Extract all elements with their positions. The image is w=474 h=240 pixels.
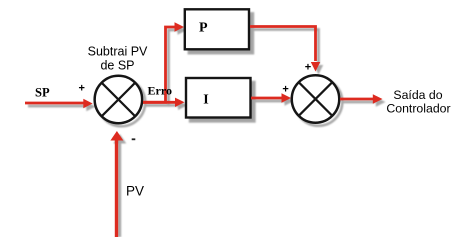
summing junction S1 bbox=[95, 76, 142, 124]
svg-text:PV: PV bbox=[126, 184, 144, 199]
svg-text:+: + bbox=[282, 83, 288, 95]
wire SP arrow bbox=[25, 99, 93, 108]
wire I out shadow bbox=[254, 96, 294, 105]
svg-text:de SP: de SP bbox=[100, 59, 134, 73]
wire P out bbox=[250, 27, 316, 62]
wire SP arrow shadow bbox=[28, 102, 96, 111]
block P shadow bbox=[189, 13, 253, 53]
svg-text:Erro: Erro bbox=[148, 84, 172, 98]
arrowhead into I shadow bbox=[178, 101, 188, 110]
block I shadow bbox=[190, 82, 255, 122]
svg-text:Subtrai PV: Subtrai PV bbox=[88, 45, 148, 59]
svg-text:+: + bbox=[305, 62, 311, 74]
arrowhead into I bbox=[175, 98, 185, 107]
arrowhead down into S2 bbox=[311, 62, 320, 72]
arrowhead down into S2 shadow bbox=[314, 65, 323, 75]
svg-text:SP: SP bbox=[35, 86, 50, 100]
wire output shadow bbox=[343, 97, 386, 107]
svg-text:Controlador: Controlador bbox=[386, 101, 450, 115]
wire PV up shadow bbox=[113, 134, 126, 237]
svg-text:I: I bbox=[203, 93, 208, 108]
summing junction S2 shadow bbox=[295, 78, 343, 126]
summing junction S1 shadow bbox=[98, 79, 145, 127]
arrowhead into P shadow bbox=[178, 25, 188, 34]
block I bbox=[186, 78, 251, 118]
wire error to P/I shadow bbox=[146, 30, 179, 105]
wire output bbox=[340, 94, 383, 103]
minus sign below S1 bbox=[132, 138, 136, 140]
svg-text:Saída do: Saída do bbox=[393, 88, 442, 102]
svg-text:+: + bbox=[78, 83, 84, 95]
wire error split to P and I bbox=[143, 27, 176, 102]
wire P out shadow bbox=[253, 30, 319, 65]
wire PV up bbox=[110, 131, 123, 237]
wire I out bbox=[251, 93, 291, 102]
block P bbox=[185, 9, 249, 49]
arrowhead into P bbox=[175, 22, 185, 31]
summing junction S2 bbox=[292, 75, 340, 123]
svg-text:P: P bbox=[199, 21, 208, 36]
